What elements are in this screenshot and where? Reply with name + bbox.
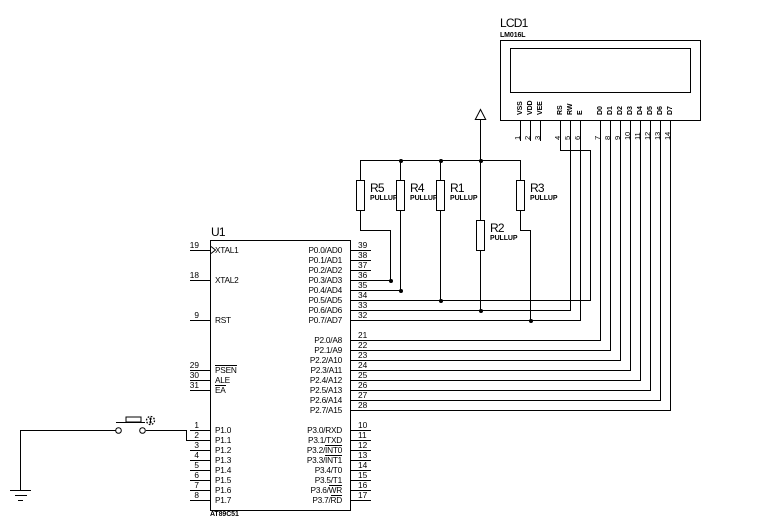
wire pin 24 P2.3 to LCD D3	[350, 370, 631, 371]
wire pin 8 P1.7 stub	[190, 500, 211, 501]
pin label P2.1/A9	[282, 345, 342, 355]
junction node (400,160)	[399, 159, 403, 163]
wire rail	[360, 160, 521, 161]
pin label P0.0/AD0	[282, 245, 342, 255]
pin label P0.4/AD4	[282, 285, 342, 295]
junction node (440,300)	[439, 299, 443, 303]
pin label P1.7	[215, 495, 231, 505]
pin number 25	[358, 370, 367, 380]
LCD1 refdes label	[500, 16, 527, 30]
pin label P3.3/INT1	[282, 455, 342, 465]
wire R3 top	[520, 160, 521, 181]
pin number 13	[358, 450, 367, 460]
pin label P1.4	[215, 465, 231, 475]
wire pin 17 P3.7 stub	[350, 500, 371, 501]
pin number 28	[358, 400, 367, 410]
wire pin 10 P3.0 stub	[350, 430, 371, 431]
wire LCD pin 10 D3	[630, 120, 631, 371]
pin label P0.7/AD7	[282, 315, 342, 325]
wire LCD pin 1 VSS	[520, 120, 521, 141]
junction node (440,160)	[439, 159, 443, 163]
pin label XTAL2	[215, 275, 239, 285]
wire pin34 to RS	[350, 300, 591, 301]
wire RS jog	[560, 150, 591, 151]
wire LCD pin 8 D1	[610, 120, 611, 351]
LCD1 display box	[500, 40, 701, 121]
pin number 5	[169, 460, 199, 470]
wire pin 18 XTAL2 stub	[190, 280, 211, 281]
pin label P3.6/WR	[282, 485, 342, 495]
pin number 24	[358, 360, 367, 370]
resistor R5 body	[356, 180, 365, 211]
gnd bar1	[10, 490, 31, 491]
wire pin 27 P2.6 to LCD D6	[350, 400, 661, 401]
wire R3 drop	[530, 230, 531, 321]
wire pin 22 P2.1 to LCD D1	[350, 350, 611, 351]
pin label P3.5/T1	[282, 475, 342, 485]
wire pin 3 P1.2 stub	[190, 450, 211, 451]
wire button down	[186, 430, 187, 441]
pin label P1.5	[215, 475, 231, 485]
LCD pin number 5	[564, 136, 572, 140]
wire LCD pin 5 RW	[570, 120, 571, 311]
pin label P1.3	[215, 455, 231, 465]
LCD pin name VSS	[517, 101, 525, 115]
button actuate marker dotted circle	[147, 417, 155, 425]
resistor R2 value label PULLUP	[490, 235, 517, 242]
pin label ALE	[215, 375, 230, 385]
LCD1 display inner screen	[510, 48, 691, 93]
power VDD arrow	[475, 110, 485, 120]
pin number 30	[169, 370, 199, 380]
pin label P0.5/AD5	[282, 295, 342, 305]
LCD pin name VEE	[537, 101, 545, 115]
wire pin 21 P2.0 to LCD D0	[350, 340, 601, 341]
pin label RST	[215, 315, 231, 325]
junction node (390,280)	[389, 279, 393, 283]
pin label P1.0	[215, 425, 231, 435]
LCD pin name D2	[617, 106, 625, 115]
pin number 12	[358, 440, 367, 450]
button bar	[116, 422, 145, 423]
LCD pin number 7	[594, 136, 602, 140]
resistor R4 body	[396, 180, 405, 211]
pin label P3.2/INT0	[282, 445, 342, 455]
pin number 22	[358, 340, 367, 350]
gnd bar3	[18, 500, 23, 501]
resistor R3 value label PULLUP	[530, 195, 557, 202]
LCD pin number 9	[614, 136, 622, 140]
pin number 23	[358, 350, 367, 360]
junction node (400,290)	[399, 289, 403, 293]
pin number 32	[358, 310, 367, 320]
pin label P0.1/AD1	[282, 255, 342, 265]
wire R5 top	[360, 160, 361, 181]
pin label P2.2/A10	[282, 355, 342, 365]
op-amp U1 microcontroller AT89C51 box	[210, 240, 351, 511]
pin label P3.7/RD	[282, 495, 342, 505]
LCD pin number 6	[574, 136, 582, 140]
pin label P2.3/A11	[282, 365, 342, 375]
pin number 16	[358, 480, 367, 490]
button left contact circle	[116, 428, 122, 434]
LCD pin number 13	[654, 132, 662, 140]
wire pin36 to R5	[350, 280, 391, 281]
pin number 19	[169, 240, 199, 250]
wire button right	[146, 430, 187, 431]
wire pin 4 P1.3 stub	[190, 460, 211, 461]
pin number 39	[358, 240, 367, 250]
pin number 10	[358, 420, 367, 430]
pin number 29	[169, 360, 199, 370]
resistor R5 value label PULLUP	[370, 195, 397, 202]
wire R1 top	[440, 160, 441, 181]
LCD pin number 10	[624, 132, 632, 140]
wire pin 7 P1.6 stub	[190, 490, 211, 491]
wire R5 bot	[360, 210, 361, 231]
resistor R1 refdes label	[450, 181, 464, 195]
pin label P3.0/RXD	[282, 425, 342, 435]
pin number 3	[169, 440, 199, 450]
resistor R1 body	[436, 180, 445, 211]
pin label P2.7/A15	[282, 405, 342, 415]
pin label P1.6	[215, 485, 231, 495]
wire R5 jog	[360, 230, 391, 231]
LCD pin name RS	[557, 105, 565, 115]
LCD pin name D7	[667, 106, 675, 115]
wire pin32 to E	[350, 320, 581, 321]
LCD pin name D6	[657, 106, 665, 115]
wire to gnd	[20, 430, 21, 491]
wire RS vertical	[590, 150, 591, 301]
wire LCD pin 11 D4	[640, 120, 641, 381]
pin number 11	[358, 430, 367, 440]
LCD pin number 4	[554, 136, 562, 140]
pin number 27	[358, 390, 367, 400]
wire R3 jog	[520, 230, 531, 231]
wire pin 28 P2.7 to LCD D7	[350, 410, 671, 411]
wire LCD pin 2 VDD	[530, 120, 531, 141]
wire pin 26 P2.5 to LCD D5	[350, 390, 651, 391]
wire R1 bot	[440, 210, 441, 301]
wire R3 bot	[520, 210, 521, 231]
pin number 21	[358, 330, 367, 340]
pin number 4	[169, 450, 199, 460]
pin number 14	[358, 460, 367, 470]
LCD pin number 1	[514, 136, 522, 140]
wire LCD pin 6 E	[580, 120, 581, 321]
wire LCD pin 4 RS	[560, 120, 561, 151]
LCD pin number 14	[664, 132, 672, 140]
button right contact circle	[140, 428, 146, 434]
pin number 6	[169, 470, 199, 480]
resistor R2 refdes label	[490, 221, 504, 235]
LCD pin number 11	[634, 133, 642, 140]
wire pin 23 P2.2 to LCD D2	[350, 360, 621, 361]
wire pin39	[350, 250, 371, 251]
wire pin 6 P1.5 stub	[190, 480, 211, 481]
wire R2 bot	[480, 250, 481, 311]
button actuate marker up-down arrow	[150, 418, 152, 423]
wire pin37	[350, 270, 371, 271]
wire LCD pin 3 VEE	[540, 120, 541, 141]
LCD pin name D0	[597, 106, 605, 115]
wire pin 16 P3.6 stub	[350, 490, 371, 491]
junction node (530,320)	[529, 319, 533, 323]
pin label EA	[215, 385, 226, 395]
wire VDD	[480, 119, 481, 221]
pin label P2.0/A8	[282, 335, 342, 345]
pin label P0.3/AD3	[282, 275, 342, 285]
pin number 9	[169, 310, 199, 320]
pin number 8	[169, 490, 199, 500]
U1 refdes label	[211, 225, 225, 239]
wire pin 19 XTAL1 stub	[190, 250, 211, 251]
LCD pin name D3	[627, 106, 635, 115]
wire pin 15 P3.5 stub	[350, 480, 371, 481]
XTAL1 clock input triangle	[211, 247, 216, 254]
resistor R4 value label PULLUP	[410, 195, 437, 202]
wire pin 11 P3.1 stub	[350, 440, 371, 441]
LCD pin name D5	[647, 106, 655, 115]
wire pin 25 P2.4 to LCD D4	[350, 380, 641, 381]
gnd bar2	[15, 495, 27, 496]
LCD pin number 3	[534, 136, 542, 140]
pin number 26	[358, 380, 367, 390]
pin number 18	[169, 270, 199, 280]
pin number 2	[169, 430, 199, 440]
junction node (480,310)	[479, 309, 483, 313]
pin number 7	[169, 480, 199, 490]
wire pin 12 P3.2 stub	[350, 450, 371, 451]
resistor R5 refdes label	[370, 181, 384, 195]
wire LCD pin 13 D6	[660, 120, 661, 401]
wire LCD pin 9 D2	[620, 120, 621, 361]
pin number 36	[358, 270, 367, 280]
pin number 1	[169, 420, 199, 430]
wire R4 bot	[400, 210, 401, 291]
pin label P2.5/A13	[282, 385, 342, 395]
pin number 15	[358, 470, 367, 480]
pin label P0.2/AD2	[282, 265, 342, 275]
pin label P1.1	[215, 435, 231, 445]
pin number 35	[358, 280, 367, 290]
wire pin35 to R4	[350, 290, 401, 291]
resistor R3 refdes label	[530, 181, 544, 195]
pin number 38	[358, 250, 367, 260]
pin number 37	[358, 260, 367, 270]
wire R5 drop	[390, 230, 391, 281]
pin label P1.2	[215, 445, 231, 455]
wire LCD pin 7 D0	[600, 120, 601, 341]
LCD pin name D1	[607, 106, 615, 115]
wire pin 5 P1.4 stub	[190, 470, 211, 471]
LCD pin number 12	[644, 132, 652, 140]
wire button left	[20, 430, 116, 431]
wire LCD pin 14 D7	[670, 120, 671, 411]
pin number 17	[358, 490, 367, 500]
resistor R2 body	[476, 220, 485, 251]
pin label P3.4/T0	[282, 465, 342, 475]
wire R4 top	[400, 160, 401, 181]
wire pin 31 EA stub	[190, 390, 211, 391]
pin number 31	[169, 380, 199, 390]
LCD pin name D4	[637, 106, 645, 115]
resistor R3 body	[516, 180, 525, 211]
LCD1 value label LM016L	[500, 32, 525, 39]
LCD pin name RW	[567, 103, 575, 114]
resistor R1 value label PULLUP	[450, 195, 477, 202]
pin label P0.6/AD6	[282, 305, 342, 315]
wire pin 2 P1.1 from button	[186, 440, 211, 441]
pin label XTAL1	[215, 245, 239, 255]
wire pin 13 P3.3 stub	[350, 460, 371, 461]
wire pin 1 P1.0 stub	[190, 430, 211, 431]
LCD pin number 8	[604, 136, 612, 140]
wire pin 30 ALE stub	[190, 380, 211, 381]
resistor R4 refdes label	[410, 181, 424, 195]
wire pin 9 RST stub	[190, 320, 211, 321]
LCD pin name E	[577, 110, 585, 115]
pin label P2.6/A14	[282, 395, 342, 405]
wire pin33 to RW	[350, 310, 571, 311]
pin label P2.4/A12	[282, 375, 342, 385]
LCD pin number 2	[524, 136, 532, 140]
pin label PSEN	[215, 365, 237, 375]
button actuator rectangle	[126, 417, 141, 422]
wire pin38	[350, 260, 371, 261]
LCD pin name VDD	[527, 100, 535, 114]
wire pin 14 P3.4 stub	[350, 470, 371, 471]
pin number 34	[358, 290, 367, 300]
U1 value label AT89C51	[210, 511, 239, 518]
wire LCD pin 12 D5	[650, 120, 651, 391]
wire pin 29 PSEN stub	[190, 370, 211, 371]
junction node (480,160)	[479, 159, 483, 163]
pin label P3.1/TXD	[282, 435, 342, 445]
pin number 33	[358, 300, 367, 310]
